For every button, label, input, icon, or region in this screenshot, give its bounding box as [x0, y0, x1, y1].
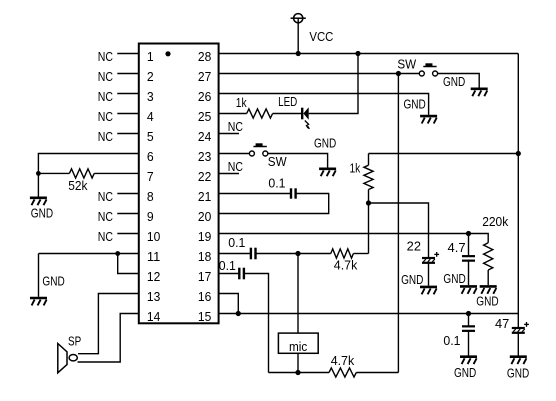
pin number 7	[147, 169, 154, 184]
IC U1 (28-pin) body	[139, 44, 219, 324]
pin number 3	[147, 89, 154, 104]
svg-text:220k: 220k	[482, 214, 509, 229]
ground (4.7 cap)	[460, 286, 477, 293]
wire 4.7 cap top lead	[468, 234, 470, 257]
svg-text:0.1: 0.1	[228, 235, 245, 250]
resistor 4.7k (bottom)	[329, 368, 356, 377]
pin number 1	[147, 49, 154, 64]
label GND (pin 26)	[404, 97, 426, 112]
svg-text:11: 11	[147, 249, 160, 264]
label 4.7	[448, 240, 466, 255]
junction pin 27 branch	[396, 71, 401, 76]
svg-text:19: 19	[198, 229, 211, 244]
svg-text:12: 12	[147, 269, 160, 284]
svg-text:21: 21	[198, 189, 211, 204]
wire 1k to LED	[273, 113, 302, 115]
svg-text:6: 6	[147, 149, 154, 164]
svg-text:22: 22	[407, 239, 421, 254]
label 0.1 (pin 21)	[268, 176, 285, 191]
svg-text:NC: NC	[98, 109, 113, 124]
wire 1k junction down to pin18 row	[368, 203, 370, 254]
svg-text:NC: NC	[98, 69, 113, 84]
label 47	[495, 316, 509, 331]
label 0.1 (pin 17)	[219, 258, 236, 273]
svg-text:LED: LED	[278, 94, 297, 109]
svg-text:52k: 52k	[68, 178, 88, 193]
wire pin 17 lead	[219, 273, 240, 275]
svg-text:NC: NC	[228, 119, 243, 134]
svg-text:NC: NC	[98, 229, 113, 244]
label SW (pin 23)	[268, 154, 288, 169]
wire pin 25 lead	[219, 113, 247, 115]
resistor 1k (vertical)	[364, 154, 373, 204]
NC label pin 3	[98, 89, 113, 104]
wire NC stub pin 9	[117, 213, 139, 215]
svg-text:NC: NC	[98, 49, 113, 64]
VCC power symbol	[291, 14, 306, 23]
wire bottom row left	[269, 372, 330, 374]
junction 0.1 bottom tap	[466, 311, 471, 316]
wire NC stub pin 10	[117, 233, 139, 235]
wire NC stub pin 2	[117, 73, 139, 75]
wire 52k to junction	[38, 172, 69, 174]
label 0.1 (bottom)	[443, 333, 460, 348]
wire mic top	[297, 254, 299, 334]
svg-text:1k: 1k	[350, 161, 361, 176]
label 4.7k (bottom)	[331, 353, 355, 368]
pin number 21	[198, 189, 211, 204]
svg-text:14: 14	[147, 309, 160, 324]
svg-text:5: 5	[147, 129, 154, 144]
wire pin 23	[219, 153, 250, 155]
wire mic bottom	[297, 353, 299, 372]
pin number 13	[147, 289, 160, 304]
capacitor 47 (electrolytic)	[512, 322, 529, 333]
pin number 25	[198, 109, 211, 124]
svg-text:47: 47	[495, 316, 509, 331]
capacitor 0.1 (pin 17)	[239, 268, 244, 280]
pushbutton switch SW (pin 23)	[249, 143, 267, 156]
wire cap to pin 20	[219, 194, 329, 214]
ground (47 cap)	[510, 357, 527, 364]
pin number 20	[198, 209, 211, 224]
junction pin15/pin16	[236, 311, 241, 316]
pin number 24	[198, 129, 211, 144]
pin number 10	[147, 229, 160, 244]
svg-text:VCC: VCC	[309, 29, 333, 44]
wire cap to 4.7k	[256, 253, 331, 255]
label 220k	[482, 214, 509, 229]
svg-text:7: 7	[147, 169, 154, 184]
ground (0.1 bottom)	[460, 357, 477, 364]
label GND (SW pin 23)	[314, 135, 336, 150]
ground (52k)	[30, 198, 47, 205]
svg-text:GND: GND	[476, 294, 498, 309]
junction VCC tap	[296, 51, 301, 56]
svg-text:23: 23	[198, 149, 211, 164]
wire 220k to ground	[487, 270, 489, 285]
svg-text:GND: GND	[401, 272, 423, 287]
svg-text:SW: SW	[397, 57, 417, 72]
wire right-edge vertical (VCC rail)	[517, 54, 519, 328]
pin number 12	[147, 269, 160, 284]
svg-text:NC: NC	[228, 159, 243, 174]
label GND (52k)	[31, 206, 53, 221]
label GND (22 cap)	[401, 272, 423, 287]
label 0.1 (pin 18)	[228, 235, 245, 250]
svg-text:17: 17	[198, 269, 211, 284]
wire 1k top rail	[369, 153, 519, 155]
svg-text:GND: GND	[42, 274, 64, 289]
svg-text:NC: NC	[98, 189, 113, 204]
pin number 26	[198, 89, 211, 104]
junction pin6/pin7/52k	[36, 171, 41, 176]
svg-text:27: 27	[198, 69, 211, 84]
wire pin 16 stub	[219, 294, 239, 314]
svg-text:22: 22	[198, 169, 211, 184]
pin number 28	[198, 49, 211, 64]
svg-text:GND: GND	[454, 365, 476, 380]
junction mic bottom	[295, 370, 300, 375]
wire NC stub pin 3	[117, 93, 139, 95]
NC label pin 10	[98, 229, 113, 244]
wire pin 14 to speaker	[78, 314, 139, 363]
label 22	[407, 239, 421, 254]
resistor 52k	[69, 169, 94, 178]
svg-text:mic: mic	[289, 339, 308, 354]
pin number 4	[147, 109, 154, 124]
wire SW to ground (pin 23)	[268, 154, 328, 168]
svg-text:GND: GND	[31, 206, 53, 221]
svg-text:25: 25	[198, 109, 211, 124]
svg-text:8: 8	[147, 189, 154, 204]
svg-text:GND: GND	[314, 135, 336, 150]
junction pin11/pin12	[115, 251, 120, 256]
svg-text:SW: SW	[268, 154, 288, 169]
ground (pin 11)	[30, 298, 47, 305]
svg-text:GND: GND	[443, 271, 465, 286]
svg-text:3: 3	[147, 89, 154, 104]
wire pin 12 link	[118, 254, 139, 274]
ground (SW pin 23)	[319, 169, 336, 176]
pin number 23	[198, 149, 211, 164]
svg-text:4.7k: 4.7k	[334, 258, 358, 273]
NC label pin 22	[228, 159, 243, 174]
svg-text:10: 10	[147, 229, 160, 244]
NC label pin 2	[98, 69, 113, 84]
wire long vertical from pin 27 junction	[397, 74, 399, 373]
label GND (0.1 bottom)	[454, 365, 476, 380]
ground (SW pin 27)	[471, 89, 488, 96]
wire pin 27	[219, 73, 420, 75]
pin number 14	[147, 309, 160, 324]
IC U1 pin-1 index dot	[165, 51, 170, 56]
label GND (220k)	[476, 294, 498, 309]
wire LED to VCC rail	[309, 54, 358, 114]
pin number 18	[198, 249, 211, 264]
junction mic top tap	[295, 251, 300, 256]
wire pin11 down to ground	[38, 254, 40, 297]
ground (pin 26)	[420, 116, 437, 123]
svg-text:15: 15	[198, 309, 211, 324]
svg-text:GND: GND	[404, 97, 426, 112]
NC label pin 5	[98, 129, 113, 144]
NC label pin 9	[98, 209, 113, 224]
ground (22 cap)	[420, 287, 437, 294]
svg-text:16: 16	[198, 289, 211, 304]
label mic	[289, 339, 308, 354]
svg-text:28: 28	[198, 49, 211, 64]
pin number 16	[198, 289, 211, 304]
svg-text:24: 24	[198, 129, 211, 144]
wire pin 11 to left	[39, 253, 139, 255]
resistor 4.7k (pin 18)	[331, 249, 354, 258]
capacitor 22 (electrolytic)	[422, 252, 439, 263]
microphone mic box	[278, 333, 318, 353]
NC label pin 24	[228, 119, 243, 134]
junction LED branch on top rail	[355, 51, 360, 56]
capacitor 0.1 (bottom)	[462, 326, 475, 331]
wire 22 cap to ground	[428, 263, 430, 286]
wire pin 7 lead right	[94, 172, 139, 174]
capacitor 4.7	[462, 256, 475, 261]
svg-text:4.7k: 4.7k	[331, 353, 355, 368]
wire 0.1 bottom lead	[468, 314, 470, 327]
svg-text:1k: 1k	[236, 95, 247, 110]
wire 0.1 bottom to ground	[468, 331, 470, 355]
wire pin 15 rail	[219, 313, 519, 315]
pin number 27	[198, 69, 211, 84]
label GND (47 cap)	[507, 366, 529, 381]
wire 47 cap to ground	[517, 333, 519, 355]
label LED	[278, 94, 297, 109]
wire NC stub pin 1	[117, 53, 139, 55]
capacitor 0.1 (pin 21)	[291, 188, 296, 198]
label 1k (pin 25)	[236, 95, 247, 110]
label GND (SW pin 27)	[443, 74, 465, 89]
wire NC stub pin 8	[117, 193, 139, 195]
svg-text:2: 2	[147, 69, 154, 84]
svg-text:NC: NC	[98, 129, 113, 144]
svg-text:4.7: 4.7	[448, 240, 466, 255]
pushbutton switch SW (pin 27)	[419, 63, 437, 76]
pin number 22	[198, 169, 211, 184]
svg-text:13: 13	[147, 289, 160, 304]
label SW (pin 27)	[397, 57, 417, 72]
LED D1	[302, 107, 310, 129]
label 1k (vertical)	[350, 161, 361, 176]
wire bottom row right	[356, 372, 398, 374]
pin number 19	[198, 229, 211, 244]
wire 4.7k to 1k junction	[353, 253, 368, 255]
svg-text:9: 9	[147, 209, 154, 224]
label GND (4.7 cap)	[443, 271, 465, 286]
wire pin 28 top rail	[219, 53, 519, 55]
speaker SP	[58, 344, 77, 373]
label GND (pin 11)	[42, 274, 64, 289]
wire junction to 22 cap	[369, 203, 429, 258]
svg-text:0.1: 0.1	[219, 258, 236, 273]
pin number 6	[147, 149, 154, 164]
svg-text:4: 4	[147, 109, 154, 124]
svg-text:0.1: 0.1	[443, 333, 460, 348]
resistor 220k	[484, 243, 493, 270]
pin number 2	[147, 69, 154, 84]
NC label pin 1	[98, 49, 113, 64]
wire pin 19	[219, 234, 489, 243]
pin number 9	[147, 209, 154, 224]
wire SW to ground corner	[438, 74, 480, 88]
wire junction down to ground	[37, 173, 39, 196]
svg-text:NC: NC	[98, 89, 113, 104]
label SP	[68, 333, 81, 348]
wire NC stub pin 24	[219, 133, 239, 135]
pin number 11	[147, 249, 160, 264]
wire 4.7 cap to ground	[468, 261, 470, 285]
svg-text:18: 18	[198, 249, 211, 264]
wire pin 26	[219, 94, 429, 115]
wire VCC stem	[297, 18, 299, 53]
label 4.7k (pin 18)	[334, 258, 358, 273]
label VCC	[309, 29, 333, 44]
pin number 8	[147, 189, 154, 204]
wire pin 13 to speaker	[78, 294, 139, 354]
ground (220k)	[480, 286, 497, 293]
wire pin 21 lead	[219, 193, 291, 195]
svg-text:SP: SP	[68, 333, 81, 348]
resistor 1k (pin 25)	[247, 109, 273, 118]
junction 1k bottom	[366, 200, 371, 205]
wire pin 6 to left	[38, 154, 138, 174]
junction 4.7 cap tap	[466, 231, 471, 236]
junction 1k top on right rail	[516, 151, 521, 156]
pin number 15	[198, 309, 211, 324]
svg-text:GND: GND	[507, 366, 529, 381]
wire pin 18 lead	[219, 253, 251, 255]
svg-text:0.1: 0.1	[268, 176, 285, 191]
svg-text:NC: NC	[98, 209, 113, 224]
svg-text:1: 1	[147, 49, 154, 64]
wire NC stub pin 22	[219, 173, 239, 175]
svg-text:GND: GND	[443, 74, 465, 89]
label 52k	[68, 178, 88, 193]
svg-text:20: 20	[198, 209, 211, 224]
NC label pin 8	[98, 189, 113, 204]
svg-text:26: 26	[198, 89, 211, 104]
wire NC stub pin 5	[117, 133, 139, 135]
wire NC stub pin 4	[117, 113, 139, 115]
wire 0.1 pin17 down	[244, 274, 269, 373]
pin number 17	[198, 269, 211, 284]
NC label pin 4	[98, 109, 113, 124]
pin number 5	[147, 129, 154, 144]
capacitor 0.1 (pin 18)	[251, 248, 256, 260]
